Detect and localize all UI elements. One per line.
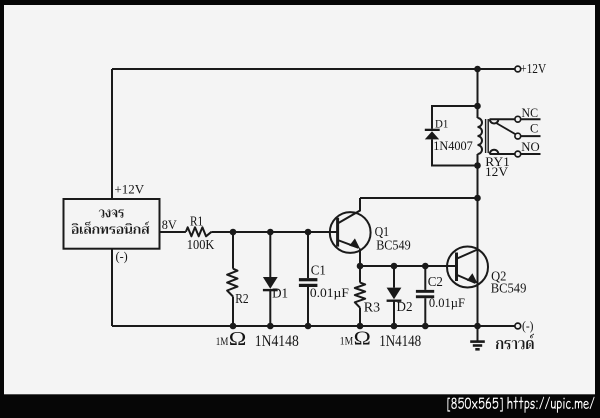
wire emitter node horizontal to Q2 base	[360, 265, 456, 267]
svg-text:8V: 8V	[162, 218, 178, 232]
transistor Q1 emitter stroke	[338, 240, 359, 248]
relay NC contact line	[490, 118, 515, 120]
junction dot R2 bottom	[230, 323, 237, 330]
wire R2 branch bottom	[232, 297, 234, 327]
junction dot D1 bottom	[267, 323, 274, 330]
wire D2 branch top	[393, 266, 395, 288]
relay NO terminal circle	[515, 151, 521, 157]
diode D1 1N4148 cathode bar	[263, 289, 278, 291]
svg-text:R2: R2	[235, 292, 248, 307]
junction dot relay top / D1 1N4007	[474, 103, 481, 110]
transistor Q2 emitter arrow	[467, 273, 478, 283]
transistor Q1 circle	[330, 212, 371, 253]
capacitor C2 top plate	[416, 290, 434, 293]
capacitor C1 bottom plate	[299, 284, 318, 287]
svg-text:NC: NC	[522, 106, 539, 120]
svg-text:BC549: BC549	[491, 281, 527, 296]
svg-text:12V: 12V	[485, 165, 508, 179]
diode D1 1N4148 triangle	[263, 277, 278, 289]
svg-text:Q1: Q1	[375, 225, 390, 240]
diode D2 1N4148 triangle	[387, 288, 402, 300]
transistor Q1 emitter arrow	[349, 238, 360, 248]
transistor Q2 emitter stroke	[456, 275, 476, 284]
svg-text:(-): (-)	[522, 318, 534, 333]
wire R3 branch bottom	[359, 308, 361, 326]
junction dot C1 bottom	[305, 323, 312, 330]
relay core bar right	[487, 119, 489, 153]
wire relay coil bottom to Q2 collector	[477, 154, 479, 326]
junction dot C2 top	[422, 263, 429, 270]
wire NO terminal right	[521, 153, 541, 155]
capacitor C2 bottom plate	[416, 295, 434, 298]
wire C2 branch top	[424, 266, 426, 290]
relay armature arm to C	[496, 123, 515, 134]
wire D1 branch top	[269, 232, 271, 277]
junction dot R3 bottom	[357, 323, 364, 330]
junction dot emitter to bottom rail	[474, 323, 481, 330]
svg-text:Ω: Ω	[354, 327, 371, 349]
svg-text:(-): (-)	[116, 249, 128, 264]
wire 8V output from box to R1	[160, 231, 186, 233]
svg-text:NO: NO	[521, 140, 539, 154]
relay RY1 coil	[478, 118, 483, 154]
wire R3 branch top	[359, 266, 361, 283]
wire diode D1 1N4007 loop bottom	[432, 139, 478, 165]
svg-text:D1: D1	[272, 287, 288, 302]
junction dot D2 top	[391, 263, 398, 270]
svg-text:1M: 1M	[216, 335, 229, 348]
wire bottom ground rail	[112, 325, 515, 327]
wire from R1 to Q1 base	[212, 231, 338, 233]
svg-text:D1: D1	[435, 117, 448, 131]
wire from circuit box (-) down to bottom rail	[111, 249, 113, 326]
ground bar 3	[475, 348, 479, 351]
wire C1 branch top	[307, 232, 309, 278]
resistor R1 100K	[186, 227, 212, 236]
junction dot Q1 collector wire	[474, 195, 481, 202]
resistor R2 1M	[227, 269, 237, 297]
svg-text:C2: C2	[428, 275, 443, 290]
wire C terminal right	[521, 135, 541, 137]
svg-text:D2: D2	[397, 300, 413, 315]
junction dot top rail to relay	[474, 66, 481, 73]
junction dot D1 top	[267, 229, 274, 236]
capacitor C1 top plate	[299, 278, 318, 281]
wire left vertical from +12V rail down to circuit box	[111, 69, 113, 199]
diode D1 1N4007 triangle pointing up	[425, 131, 439, 139]
relay NO contact bump	[490, 150, 499, 154]
label Thai ground	[496, 334, 534, 350]
diode D2 1N4148 cathode bar	[387, 300, 402, 302]
svg-text:C: C	[530, 122, 538, 136]
label Thai line 2 in box	[72, 222, 150, 234]
resistor R3 1M	[355, 283, 365, 308]
wire NC terminal right	[521, 118, 541, 120]
svg-text:Ω: Ω	[229, 328, 247, 350]
relay C terminal circle	[515, 133, 521, 139]
junction dot relay bottom / D1 1N4007	[474, 162, 481, 169]
wire Q1 collector to relay line	[360, 197, 478, 199]
svg-text:BC549: BC549	[376, 239, 411, 254]
svg-text:100K: 100K	[187, 238, 215, 253]
transistor Q1 collector stroke	[338, 198, 360, 224]
ground stub	[477, 326, 479, 341]
wire Q1 emitter vertical	[359, 249, 361, 267]
wire D2 branch bottom	[393, 300, 395, 326]
terminal (-) open circle	[515, 323, 521, 329]
wire relay vertical from +12V rail to coil	[477, 69, 479, 118]
wire diode D1 1N4007 loop top	[432, 106, 478, 129]
relay NC armature bump	[490, 119, 499, 123]
svg-text:R3: R3	[364, 301, 380, 316]
svg-text:+12V: +12V	[520, 61, 546, 76]
terminal +12V open circle	[515, 66, 521, 72]
ground bar 1	[470, 340, 485, 343]
relay NO contact line	[490, 153, 515, 155]
junction dot C1 top	[305, 229, 312, 236]
svg-text:+12V: +12V	[114, 182, 144, 196]
diode D1 1N4007 cathode bar	[425, 129, 440, 131]
label Thai line 1 in box	[99, 209, 124, 217]
ground bar 2	[473, 344, 482, 347]
svg-text:1N4148: 1N4148	[255, 333, 299, 350]
svg-text:1M: 1M	[340, 334, 353, 347]
junction dot R2 top	[230, 229, 237, 236]
junction dot D2 bottom	[391, 323, 398, 330]
transistor Q2 circle	[447, 247, 488, 288]
circuit box (electronics circuit)	[64, 199, 160, 249]
svg-text:R1: R1	[190, 215, 203, 230]
wire D1 branch bottom	[269, 289, 271, 326]
svg-text:1N4007: 1N4007	[433, 139, 473, 153]
transistor Q2 collector stroke	[456, 250, 478, 260]
wire C2 branch bottom	[424, 298, 426, 326]
transistor Q1 base bar	[336, 218, 339, 247]
junction dot C2 bottom	[422, 323, 429, 330]
junction dot R3 top	[357, 263, 364, 270]
svg-text:0.01µF: 0.01µF	[429, 296, 465, 310]
wire C1 branch bottom	[307, 287, 309, 326]
relay NC terminal circle	[515, 116, 521, 122]
watermark caption 850x565 upic.me	[447, 397, 594, 413]
wire R2 branch top	[232, 232, 234, 269]
transistor Q2 base bar	[455, 253, 458, 282]
relay core bar left	[485, 119, 487, 153]
wire top +12V rail	[112, 68, 515, 70]
svg-text:1N4148: 1N4148	[379, 333, 421, 350]
svg-text:0.01µF: 0.01µF	[310, 285, 349, 300]
svg-text:C1: C1	[311, 264, 326, 279]
